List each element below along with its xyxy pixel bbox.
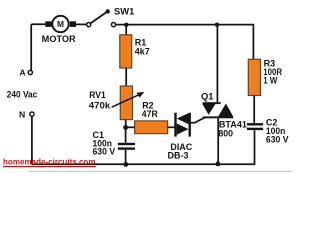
svg-text:M: M [57,19,64,29]
svg-text:630 V: 630 V [266,134,289,144]
resistor R1 [120,35,132,68]
svg-text:47R: 47R [142,109,158,119]
wire: top junction down to triac [216,25,218,103]
capacitor C2 top plate [247,123,263,125]
wire: diac to triac gate [191,118,205,123]
svg-text:240 Vac: 240 Vac [7,89,38,99]
capacitor C2 bottom plate [247,128,263,130]
wire: junction down to C1 [125,128,127,144]
svg-text:4k7: 4k7 [135,47,150,57]
svg-text:DB-3: DB-3 [168,151,189,161]
motor M1 left brush terminal [45,21,51,27]
motor M1 body circle [52,16,68,32]
svg-text:470k: 470k [89,100,112,110]
wire: C1 to bottom rail [125,150,127,165]
svg-text:RV1: RV1 [89,90,106,100]
diac left bar [174,113,176,137]
svg-text:homemade-circuits.com: homemade-circuits.com [3,156,96,166]
svg-text:MOTOR: MOTOR [42,34,76,44]
svg-text:1 W: 1 W [263,76,277,86]
svg-text:800: 800 [218,128,233,139]
wire: N riser down to bottom rail [31,116,33,164]
bottom page divider gray line [28,170,292,172]
wire: bottom rail [32,130,255,164]
wire: R2 to diac [168,126,175,128]
junction node RV1/R2/C1 [123,125,128,130]
svg-text:A: A [19,68,25,78]
wire: motor to switch [76,23,87,25]
potentiometer RV1 body [120,86,132,120]
junction node C1/bottom rail [124,162,129,167]
triac Q1 top bar [203,102,221,104]
triac Q1 right triangle (points up) [218,104,233,117]
capacitor C1 top plate [118,143,135,145]
svg-text:SW1: SW1 [114,7,134,17]
terminal A (open circle) [28,70,32,74]
svg-text:Q1: Q1 [201,91,214,102]
diac right bar [189,113,191,137]
switch SW1 left contact [87,23,91,27]
motor M1 right brush terminal [70,21,76,27]
junction node above R1 [124,23,128,27]
resistor R3 [248,59,260,95]
terminal N (open circle) [30,112,34,116]
wire: junction down to R1 [125,25,127,35]
switch SW1 right contact [111,23,115,27]
capacitor C1 bottom plate [118,147,135,149]
wire: triac down to bottom rail [217,118,219,164]
resistor R2 [135,121,168,134]
svg-text:N: N [19,109,25,119]
wire: R1 to RV1 [125,68,127,86]
RV1 arrow [112,94,140,107]
triac Q1 left triangle (points down) [202,104,215,115]
switch SW1 blade tip dot [106,9,110,13]
junction node triac/bottom rail [215,162,220,167]
diac lower triangle (points right) [177,124,189,135]
junction node above Q1 [215,23,219,27]
triac Q1 bottom bar [203,116,233,118]
watermark underline [3,166,96,168]
diac upper triangle (points left) [177,113,189,124]
svg-text:630 V: 630 V [93,147,116,157]
wire: top rail from switch to right side, down to R3 [116,25,254,60]
wire: R3 to C2 [253,96,255,124]
wire: junction to R2 [126,126,135,128]
wire: RV1 down to junction [125,120,127,128]
switch SW1 blade [90,12,106,23]
wire: A riser up and over to motor [31,24,45,70]
